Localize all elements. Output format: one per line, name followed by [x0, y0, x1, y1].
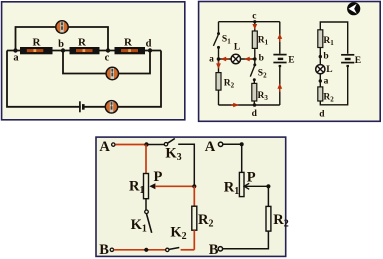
- wire b to S2: [254, 59, 256, 65]
- rheostat R1 (panel3 right): [239, 172, 244, 196]
- resistor R2 (panel2): [216, 73, 221, 91]
- wire R1 to b: [254, 48, 256, 59]
- wire R2 to B (panel3 right): [223, 231, 269, 249]
- svg-text:d: d: [252, 109, 258, 119]
- resistor R2 (panel3 right): [266, 206, 271, 231]
- wire right-circuit R1 to lamp: [319, 48, 321, 65]
- svg-text:E: E: [288, 55, 294, 65]
- svg-text:b: b: [259, 54, 264, 64]
- terminal A (panel3 left): [112, 143, 115, 146]
- node c junction (panel2): [253, 20, 256, 23]
- svg-text:E: E: [355, 56, 361, 66]
- node a (panel2 right): [319, 79, 322, 82]
- resistor R3 (panel2): [252, 83, 257, 101]
- wire R3 to d: [253, 101, 255, 105]
- svg-text:P: P: [154, 169, 163, 185]
- node d: [148, 48, 152, 52]
- battery: [80, 101, 83, 112]
- terminal A (panel3 right): [218, 142, 222, 146]
- wire red A to junction: [115, 144, 146, 146]
- wire c to R1: [254, 22, 256, 31]
- panel 2 frame: [199, 2, 381, 122]
- panel 1 frame: [2, 2, 185, 120]
- wire left upper to S1: [218, 22, 220, 34]
- wire junction to R2 (panel3 right): [267, 186, 269, 206]
- current arrow toward lamp right side: [244, 57, 252, 62]
- junction top (panel3 left): [144, 142, 148, 146]
- current arrow up on right wire (upper): [277, 34, 282, 43]
- node c: [106, 48, 110, 52]
- current arrow right on bottom wire: [231, 103, 239, 108]
- current arrow toward lamp left side: [221, 57, 229, 62]
- wire bottom: [219, 104, 280, 106]
- lamp L (panel2 left): [231, 54, 240, 63]
- wire left a to R2: [218, 47, 220, 72]
- wiper P arrow (panel3 left): [149, 183, 194, 189]
- resistor R (b-c): [70, 47, 100, 54]
- svg-text:d: d: [319, 110, 325, 120]
- panel 3 frame: [96, 137, 286, 256]
- svg-text:c: c: [105, 53, 110, 64]
- rheostat R1 (panel3 left): [144, 174, 149, 199]
- wire right-circuit lamp to R2: [319, 74, 321, 87]
- wire corner down to R1 (panel3 right): [241, 144, 243, 172]
- resistor R2 (panel3 left): [192, 206, 197, 230]
- switch S1: [213, 32, 220, 49]
- switch K3: [164, 139, 175, 146]
- resistor R (c-d): [115, 47, 146, 54]
- ammeter A1: [56, 21, 68, 33]
- ammeter A3: [105, 101, 117, 113]
- switch K2: [166, 248, 180, 252]
- node d (panel2): [253, 103, 257, 107]
- junction bottom (panel3 left): [144, 248, 148, 252]
- wire left R2 to bottom: [218, 90, 220, 105]
- svg-text:R: R: [33, 36, 42, 48]
- wire right-circuit bottom loop: [320, 67, 347, 105]
- svg-text:a: a: [209, 54, 214, 64]
- svg-text:R: R: [78, 36, 87, 48]
- junction wiper (panel3 right): [266, 184, 270, 188]
- ammeter A2: [106, 67, 118, 79]
- svg-text:L: L: [234, 42, 240, 52]
- wire junction to K3: [149, 144, 165, 146]
- wire top c: [219, 21, 280, 23]
- svg-text:b: b: [58, 39, 64, 50]
- junction corner (panel3 right): [240, 142, 244, 146]
- junction wiper (panel3 left): [192, 184, 196, 188]
- back icon: [347, 2, 360, 15]
- svg-text:L: L: [326, 65, 332, 75]
- svg-text:A: A: [205, 139, 216, 155]
- current arrow down below a: [216, 61, 221, 69]
- svg-text:B: B: [209, 242, 219, 258]
- wire red R2 to bottom: [193, 230, 195, 250]
- terminal B (panel3 right): [218, 247, 222, 251]
- wire red K2 to R2 riser: [181, 249, 195, 251]
- battery E (panel2 right): [341, 55, 354, 67]
- node a (panel2): [217, 57, 221, 61]
- svg-text:c: c: [252, 11, 256, 21]
- terminal B (panel3 left): [110, 248, 113, 251]
- svg-text:A: A: [99, 139, 110, 155]
- svg-text:a: a: [13, 52, 19, 63]
- wire bottom loop with battery: [7, 51, 161, 107]
- current arrow down at c: [252, 24, 257, 30]
- lamp L (panel2 right): [316, 65, 325, 74]
- wire red junction to R2: [193, 186, 195, 206]
- switch S2: [250, 63, 256, 81]
- node b (panel2 right): [319, 55, 322, 58]
- wire lamp row a-b: [219, 58, 255, 60]
- wire K3 to right branch: [178, 144, 194, 186]
- svg-text:R: R: [124, 36, 133, 48]
- svg-text:P: P: [247, 169, 256, 185]
- wire S2 to R3: [253, 80, 255, 84]
- resistor R1 (panel2): [252, 31, 257, 48]
- node a: [13, 48, 17, 52]
- svg-text:b: b: [323, 52, 328, 62]
- wire right below battery: [279, 67, 281, 105]
- wire right-circuit top loop: [320, 22, 347, 54]
- node b: [61, 48, 65, 52]
- current arrow up on right wire (lower): [277, 83, 282, 91]
- svg-text:a: a: [324, 76, 329, 86]
- wire R1 bottom to K1: [145, 199, 147, 210]
- wire main horizontal a-b-c-d: [7, 50, 161, 52]
- resistor R2 (panel2 right): [318, 87, 323, 101]
- resistor R1 (panel2 right): [318, 30, 323, 48]
- wire top loop a-A1-c: [16, 27, 109, 51]
- resistor R (a-b): [20, 47, 53, 54]
- wire A to corner (panel3 right): [223, 143, 242, 145]
- wire right above battery: [279, 22, 281, 54]
- battery E (panel2 left): [273, 55, 286, 68]
- wiper P arrow (panel3 right): [244, 183, 268, 189]
- node b (panel2): [253, 57, 257, 61]
- wire red B to K2: [114, 249, 166, 251]
- switch K1: [145, 210, 152, 233]
- svg-text:d: d: [146, 39, 152, 50]
- wire red junction down to R1: [145, 145, 147, 174]
- svg-text:B: B: [99, 242, 109, 258]
- wire middle loop b-A2-d: [63, 51, 150, 74]
